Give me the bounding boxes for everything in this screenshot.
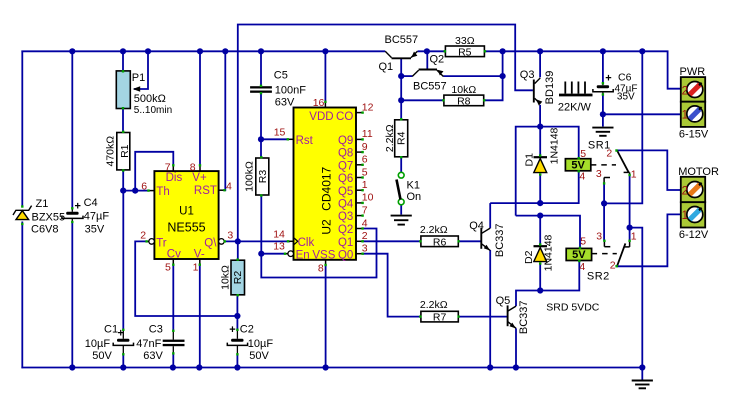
svg-text:6: 6 bbox=[141, 180, 147, 192]
resistor R6 2.2k bbox=[419, 236, 460, 247]
svg-text:BZX55: BZX55 bbox=[32, 212, 66, 224]
label Q3 bbox=[520, 69, 535, 81]
svg-text:SRD 5VDC: SRD 5VDC bbox=[546, 302, 600, 314]
wire D1 cathode to +5V node bbox=[539, 127, 541, 156]
label Q1 bbox=[379, 61, 394, 73]
wire R3 bottom to En junction bbox=[260, 195, 262, 254]
pin number 9 of U2 bbox=[362, 141, 368, 153]
name U2 (rotated) bbox=[320, 219, 334, 235]
value 2.2k of R7 bbox=[420, 299, 448, 311]
pin number 8 of U2 bbox=[318, 262, 324, 274]
value 47uF of C4 bbox=[84, 211, 110, 223]
junction dot Tr/R2/C2 bbox=[234, 313, 240, 319]
wire U1 pin 1 V- down to GND rail bbox=[199, 264, 201, 368]
svg-text:+: + bbox=[75, 201, 81, 213]
svg-text:R1: R1 bbox=[119, 144, 131, 158]
svg-text:35V: 35V bbox=[85, 224, 105, 236]
pin name Cv bbox=[167, 249, 181, 261]
pin number 2 of U2 bbox=[362, 230, 368, 242]
value 500k of P1 bbox=[134, 93, 166, 105]
label PWR bbox=[680, 66, 706, 78]
label P1 bbox=[132, 72, 145, 84]
pin 3 Q0 stub of U2 bbox=[356, 253, 364, 255]
pin 8 V+ stub bbox=[199, 164, 201, 171]
mechanical link dashes of SR2 bbox=[592, 253, 617, 255]
svg-text:SR2: SR2 bbox=[587, 271, 610, 283]
svg-text:100kΩ: 100kΩ bbox=[244, 161, 256, 192]
wire K1 bottom to ground bbox=[400, 205, 402, 215]
wire C2 branch from Tr node down bbox=[236, 316, 238, 330]
svg-text:R6: R6 bbox=[433, 236, 447, 248]
pin number 1 of U1 bbox=[193, 261, 199, 273]
svg-text:6: 6 bbox=[362, 154, 368, 166]
wire Rst net to U2 pin 15 bbox=[261, 138, 288, 140]
screw terminal 2 of PWR bbox=[687, 82, 703, 98]
pin number 3 of SR1 bbox=[596, 168, 602, 180]
contact pin 1 stub of SR2 bbox=[624, 240, 631, 247]
value BD139 of Q3 (rotated) bbox=[544, 71, 556, 105]
wire Q2 collector node horizontal bbox=[401, 75, 412, 77]
pin number 5 of SR2 bbox=[580, 235, 586, 247]
pin number 7 of U1 bbox=[165, 161, 171, 173]
label D2 (rotated) bbox=[523, 250, 535, 264]
pin 10 Q4 stub of U2 bbox=[356, 202, 364, 204]
junction dot +5V node at D1 cathode bbox=[537, 124, 543, 130]
wire P1 bottom to R1 top bbox=[122, 108, 124, 133]
value 35V of C6 bbox=[617, 92, 635, 103]
svg-text:11: 11 bbox=[362, 128, 373, 140]
transistor Q3 BD139 (NPN) bbox=[534, 78, 543, 106]
svg-text:Th: Th bbox=[156, 186, 169, 198]
wire Q3 collector to top rail bbox=[539, 51, 541, 77]
name U1 bbox=[179, 206, 194, 218]
svg-text:63V: 63V bbox=[275, 97, 295, 109]
svg-text:Z1: Z1 bbox=[36, 198, 49, 210]
svg-text:C5: C5 bbox=[274, 70, 288, 82]
pin name Tr bbox=[156, 237, 167, 249]
pin name Q8 bbox=[338, 148, 353, 160]
junction dot Q2 emitter / R5-R8 tie bbox=[500, 73, 506, 79]
plus sign of C1 bbox=[118, 328, 124, 340]
value 50V of C2 bbox=[249, 350, 269, 362]
pin number 8 of U1 bbox=[190, 161, 196, 173]
wire R7 right to Q5 base bbox=[458, 316, 508, 318]
svg-text:R7: R7 bbox=[433, 312, 447, 324]
svg-text:22K/W: 22K/W bbox=[558, 102, 592, 114]
plus sign of C6 bbox=[605, 73, 611, 85]
pin 13 En stub with inverting circle bbox=[284, 251, 294, 257]
name R5 bbox=[458, 46, 472, 58]
pin number 4 of U2 bbox=[362, 217, 368, 229]
junction dot node B at D2 cathode bbox=[537, 213, 543, 219]
svg-text:C1: C1 bbox=[104, 324, 118, 336]
svg-text:Q5: Q5 bbox=[338, 186, 353, 198]
contact pin 3 stub of SR1 bbox=[603, 178, 610, 185]
svg-text:Q9: Q9 bbox=[338, 135, 353, 147]
name R2 (rotated) bbox=[232, 271, 244, 285]
svg-text:1: 1 bbox=[362, 179, 368, 191]
label C4 bbox=[84, 197, 98, 209]
svg-text:10: 10 bbox=[362, 192, 374, 204]
wire node A horizontal: Q4 collector - D1 anode - SR1 coil pin 4 bbox=[490, 170, 579, 203]
svg-text:10µF: 10µF bbox=[248, 338, 274, 350]
svg-text:R8: R8 bbox=[457, 95, 471, 107]
svg-text:9: 9 bbox=[362, 141, 368, 153]
pin 12 CO stub of U2 bbox=[356, 111, 364, 113]
svg-text:K1: K1 bbox=[407, 180, 420, 192]
svg-text:Q1: Q1 bbox=[338, 237, 353, 249]
wire +V feed node down to SR2 contact pin 3 bbox=[603, 203, 605, 240]
wire C5 branch from top rail bbox=[260, 51, 262, 87]
value 6-15V of PWR bbox=[679, 129, 709, 141]
svg-text:2: 2 bbox=[362, 230, 368, 242]
pin number 2 of SR2 bbox=[610, 259, 616, 271]
wire P1 wiper to top rail bbox=[134, 51, 148, 89]
pin number 1 of MOTOR bbox=[682, 210, 688, 222]
wire GND bottom rail y=367.5 bbox=[21, 367, 642, 369]
ground symbol below C6 bbox=[592, 128, 613, 136]
pin name Dis bbox=[166, 172, 183, 184]
diode D2 1N4148 bbox=[534, 243, 548, 264]
pin 2 Tr stub with inverting circle bbox=[145, 239, 154, 245]
svg-text:Cv: Cv bbox=[167, 249, 181, 261]
svg-text:Tr: Tr bbox=[156, 237, 167, 249]
svg-text:R2: R2 bbox=[232, 271, 244, 285]
name R8 bbox=[457, 95, 471, 107]
pin number 4 of SR1 bbox=[579, 171, 585, 183]
value BZX55 bbox=[32, 212, 66, 224]
value BC337 of Q4 (rotated) bbox=[494, 223, 506, 257]
name R1 (rotated) bbox=[119, 144, 131, 158]
wire PWR terminal 1 to GND node at C6 bbox=[603, 113, 681, 115]
transistor Q5 BC337 (NPN) bbox=[508, 305, 516, 328]
svg-text:4: 4 bbox=[579, 171, 585, 183]
svg-text:1: 1 bbox=[631, 230, 637, 242]
wire U2 pin 8 VSS down to GND rail bbox=[325, 265, 327, 368]
svg-text:+: + bbox=[229, 324, 235, 336]
wire R8 left connection bbox=[401, 99, 444, 101]
svg-text:R5: R5 bbox=[458, 46, 472, 58]
pin name Q1 bbox=[338, 237, 353, 249]
value C6V8 bbox=[31, 224, 59, 236]
pin 7 Q3 stub of U2 bbox=[356, 214, 364, 216]
wire R6 right to Q4 base bbox=[458, 240, 482, 242]
label On of K1 bbox=[407, 191, 422, 203]
wire Rst junction to R3 top bbox=[260, 139, 262, 158]
wire C6 branch from top rail bbox=[602, 51, 604, 83]
value 10uF of C2 bbox=[248, 338, 274, 350]
wire C2 bottom to GND rail bbox=[236, 354, 238, 368]
svg-text:1: 1 bbox=[631, 168, 637, 180]
svg-text:2: 2 bbox=[682, 86, 688, 98]
ground symbol at bottom rail end bbox=[632, 368, 653, 389]
label SR1 bbox=[588, 140, 611, 152]
contact pin 3 stub of SR2 bbox=[603, 240, 610, 247]
svg-text:D2: D2 bbox=[523, 250, 535, 264]
pin 8 VSS stub bbox=[324, 260, 326, 266]
transistor Q2 BC557 (PNP) bbox=[412, 70, 443, 77]
svg-text:3: 3 bbox=[227, 230, 233, 242]
svg-text:Q2: Q2 bbox=[338, 224, 353, 236]
wire Q2 emitter to R5/R8 vertical bbox=[443, 75, 502, 77]
relay SR2 coil 5V bbox=[566, 247, 591, 262]
op-amp/timer U1 NE555 body bbox=[154, 171, 218, 259]
pin name En bbox=[296, 249, 310, 261]
wire +5V node horizontal: Q3 emitter - D1 - SR1 coil pin 5 bbox=[516, 127, 579, 216]
svg-text:6-12V: 6-12V bbox=[679, 229, 709, 241]
connector PWR terminal block bbox=[681, 77, 705, 127]
label SRD 5VDC bbox=[546, 302, 600, 314]
wire C4 bottom to GND rail bbox=[71, 222, 73, 368]
svg-text:En: En bbox=[296, 249, 310, 261]
pin number 3 of U1 bbox=[227, 230, 233, 242]
pin number 15 of U2 bbox=[274, 126, 286, 138]
pin number 3 of SR2 bbox=[596, 230, 602, 242]
name R6 bbox=[433, 236, 447, 248]
svg-text:U1: U1 bbox=[179, 206, 194, 218]
name R4 (rotated) bbox=[396, 131, 408, 145]
svg-text:2.2kΩ: 2.2kΩ bbox=[384, 124, 396, 152]
pin name VDD bbox=[309, 111, 333, 123]
value 47nF of C3 bbox=[136, 338, 161, 350]
svg-text:+: + bbox=[605, 73, 611, 85]
capacitor C6 47uF 35V (polarized) bbox=[593, 82, 613, 96]
value 5V of SR1 coil bbox=[571, 159, 585, 171]
pin number 7 of U2 bbox=[362, 204, 368, 216]
value 50V of C1 bbox=[92, 350, 112, 362]
svg-text:5: 5 bbox=[580, 235, 586, 247]
wire Q2 base to top rail bbox=[426, 51, 428, 68]
wire U1 pin 4 RST to top rail bbox=[224, 51, 225, 190]
svg-text:2: 2 bbox=[682, 185, 688, 197]
label BC557 of Q1 bbox=[385, 34, 419, 46]
pin name V+ bbox=[192, 172, 207, 184]
svg-text:D1: D1 bbox=[524, 153, 536, 167]
value 10k of R8 bbox=[451, 84, 476, 96]
pin 5 Cv stub bbox=[172, 259, 174, 266]
value 35V of C4 bbox=[85, 224, 105, 236]
pin name RST bbox=[194, 185, 217, 197]
capacitor C4 47uF 35V (polarized) bbox=[62, 207, 83, 223]
pin 7 Dis stub bbox=[172, 164, 174, 171]
label BC557 of Q2 bbox=[413, 81, 447, 93]
svg-text:NE555: NE555 bbox=[167, 221, 205, 235]
wire SR2 contact pin 2 to MOTOR terminal 1 bbox=[617, 214, 681, 266]
pin 6 Th stub bbox=[147, 189, 154, 191]
wire U1 pin 8 V+ to top rail bbox=[199, 51, 201, 166]
pin 4 RST stub bbox=[219, 189, 226, 191]
pin number 11 of U2 bbox=[362, 128, 373, 140]
value NE555 bbox=[167, 221, 205, 235]
wire R2 bottom to Tr loop node bbox=[236, 295, 238, 317]
plus sign of C4 bbox=[75, 201, 81, 213]
diode D1 1N4148 bbox=[534, 154, 548, 175]
wire C4 branch from top rail bbox=[71, 51, 73, 208]
wire R1 bottom to Th junction bbox=[122, 170, 124, 191]
svg-text:4: 4 bbox=[226, 180, 232, 192]
svg-text:5V: 5V bbox=[571, 159, 585, 171]
value 2.2k of R4 (rotated) bbox=[384, 124, 396, 152]
pin name Clk bbox=[298, 237, 315, 249]
wire U2 pin 3 Q0 output to R7 bbox=[362, 254, 421, 317]
svg-text:C6V8: C6V8 bbox=[31, 224, 59, 236]
pin name V- bbox=[194, 249, 205, 261]
svg-text:100nF: 100nF bbox=[275, 85, 306, 97]
label Q5 bbox=[496, 295, 511, 307]
wire Q4 emitter down to GND rail bbox=[489, 250, 491, 368]
wire R4 top connection bbox=[400, 100, 402, 120]
svg-text:CD4017: CD4017 bbox=[320, 166, 334, 210]
wire C1 branch from Th junction down bbox=[122, 191, 124, 331]
pin 1 V- stub bbox=[199, 259, 201, 266]
pin number 4 of SR2 bbox=[579, 261, 585, 273]
svg-text:VDD: VDD bbox=[309, 111, 333, 123]
pin number 16 of U2 bbox=[313, 97, 325, 109]
pin name Q0 bbox=[338, 249, 353, 261]
pin name CO bbox=[336, 111, 353, 123]
value 5V of SR2 coil bbox=[572, 249, 586, 261]
pin name Q4 bbox=[338, 199, 354, 211]
svg-text:BC557: BC557 bbox=[413, 81, 447, 93]
svg-text:Q1: Q1 bbox=[379, 61, 394, 73]
wire +V feed from top rail to relay throw node bbox=[604, 51, 642, 203]
wire Dis loop: Th junction up and over to U1 pin 7 bbox=[135, 152, 173, 191]
label C5 bbox=[274, 70, 288, 82]
wire U1 pin 5 Cv down to C3 bbox=[172, 264, 174, 331]
wire C6 bottom to PWR-1/GND node bbox=[602, 94, 604, 114]
pin number 6 of U2 bbox=[362, 154, 368, 166]
junction dot Q\/Clk/R2 bbox=[235, 238, 241, 244]
pin name Q3 bbox=[338, 211, 353, 223]
value 5..10min of P1 bbox=[134, 105, 172, 116]
switch K1 On bbox=[397, 172, 405, 205]
svg-text:3: 3 bbox=[596, 230, 602, 242]
svg-text:Q3: Q3 bbox=[520, 69, 535, 81]
svg-text:Q3: Q3 bbox=[338, 211, 353, 223]
svg-text:47nF: 47nF bbox=[136, 338, 161, 350]
pin number 2 of SR1 bbox=[606, 147, 612, 159]
pin number 5 of SR1 bbox=[580, 148, 586, 160]
value 2.2k of R6 bbox=[420, 224, 448, 236]
resistor R2 10k (highlighted) bbox=[231, 258, 245, 296]
connector MOTOR terminal block bbox=[681, 177, 705, 228]
pin number 1 of U2 bbox=[362, 179, 368, 191]
pin number 5 of U1 bbox=[165, 261, 171, 273]
screw terminal 1 of PWR bbox=[687, 106, 703, 122]
svg-text:Dis: Dis bbox=[166, 172, 183, 184]
name R7 bbox=[433, 312, 447, 324]
svg-text:33Ω: 33Ω bbox=[455, 35, 475, 47]
value 1N4148 of D2 (rotated) bbox=[543, 234, 555, 271]
value 100k of R3 (rotated) bbox=[244, 161, 256, 192]
value 33ohm of R5 bbox=[455, 35, 475, 47]
svg-text:2.2kΩ: 2.2kΩ bbox=[420, 224, 448, 236]
label Q4 bbox=[469, 220, 484, 232]
wire U1 pin 2 Tr loop down to R2 bottom node bbox=[135, 241, 237, 316]
svg-text:470kΩ: 470kΩ bbox=[105, 136, 117, 167]
svg-text:C6: C6 bbox=[618, 72, 632, 84]
pin number 5 of U2 bbox=[362, 166, 368, 178]
label C2 bbox=[240, 324, 254, 336]
contact lever of SR2 (pin 2 to pin 1) bbox=[615, 243, 625, 267]
wire U2 pin 2 Q1 output to R6 bbox=[362, 240, 421, 242]
svg-text:C2: C2 bbox=[240, 324, 254, 336]
wire D2 cathode to node B bbox=[539, 216, 541, 245]
pin 9 Q8 stub of U2 bbox=[356, 151, 364, 153]
svg-text:U2: U2 bbox=[320, 219, 334, 235]
pin 11 Q9 stub of U2 bbox=[356, 138, 364, 140]
pin 2 Q1 stub of U2 bbox=[356, 240, 364, 242]
svg-text:BD139: BD139 bbox=[544, 71, 556, 105]
wire Th net horizontal to U1 pin 6 bbox=[123, 190, 149, 192]
svg-text:1N4148: 1N4148 bbox=[543, 234, 555, 271]
wire Q5 emitter down to GND rail bbox=[515, 328, 517, 367]
svg-text:500kΩ: 500kΩ bbox=[134, 93, 166, 105]
svg-text:Q4: Q4 bbox=[469, 220, 484, 232]
resistor R5 33ohm bbox=[444, 46, 487, 57]
svg-text:10µF: 10µF bbox=[85, 338, 111, 350]
pin 14 Clk stub with clock chevron bbox=[287, 238, 298, 246]
screw terminal 1 of MOTOR bbox=[687, 207, 703, 223]
pin number 13 of U2 bbox=[273, 241, 285, 253]
capacitor C5 100nF 63V bbox=[250, 85, 272, 95]
wire relay commons node to SR2 pin 1 bbox=[629, 228, 631, 241]
wire SR1 contact pin 2 to MOTOR terminal 2 bbox=[617, 150, 681, 190]
mechanical link dashes of SR1 bbox=[591, 164, 616, 166]
junction dots on GND bottom rail bbox=[69, 364, 645, 370]
value 6-12V of MOTOR bbox=[679, 229, 709, 241]
wire R4 bottom to switch K1 bbox=[400, 157, 402, 173]
svg-text:Q6: Q6 bbox=[338, 173, 353, 185]
pin number 1 of PWR bbox=[682, 110, 688, 122]
value 63V of C3 bbox=[143, 350, 163, 362]
wire D1 anode to node A bbox=[539, 174, 541, 203]
junction dots on +V rail bbox=[69, 48, 645, 54]
heatsink symbol 22K/W bbox=[559, 82, 593, 96]
pin number 6 of U1 bbox=[141, 180, 147, 192]
contact pin 1 stub of SR1 bbox=[624, 172, 631, 176]
pin name Q9 bbox=[338, 135, 353, 147]
svg-text:4: 4 bbox=[362, 217, 368, 229]
pin name Q6 bbox=[338, 173, 353, 185]
pin name Q5 bbox=[338, 186, 353, 198]
label K1 bbox=[407, 180, 420, 192]
wire +V rail segment R5 right to PWR terminal 2 bbox=[484, 51, 681, 88]
pin name Q2 bbox=[338, 224, 353, 236]
svg-text:10kΩ: 10kΩ bbox=[220, 265, 232, 290]
label Q2 bbox=[430, 54, 445, 66]
svg-text:Q5: Q5 bbox=[496, 295, 511, 307]
wire clock top rail from Q\ node to Q3 base bbox=[238, 25, 533, 242]
svg-text:14: 14 bbox=[273, 228, 285, 240]
pin 3 Q\ stub with inverting circle bbox=[219, 239, 226, 245]
svg-text:50V: 50V bbox=[249, 350, 269, 362]
pin 5 Q6 stub of U2 bbox=[356, 176, 364, 178]
pin 6 Q7 stub of U2 bbox=[356, 164, 364, 166]
svg-text:13: 13 bbox=[273, 241, 285, 253]
value 10k of R2 (rotated) bbox=[220, 265, 232, 290]
svg-text:5V: 5V bbox=[572, 249, 586, 261]
junction dot En/R3 bbox=[258, 251, 264, 257]
pin number 2 of PWR bbox=[682, 86, 688, 98]
svg-text:VSS: VSS bbox=[312, 249, 335, 261]
svg-text:2: 2 bbox=[610, 259, 616, 271]
pin name Rst bbox=[296, 135, 314, 147]
svg-text:4: 4 bbox=[579, 261, 585, 273]
value 22K/W of heatsink bbox=[558, 102, 592, 114]
svg-text:12: 12 bbox=[362, 101, 374, 113]
junction dot Th/R1/C1 bbox=[120, 188, 138, 194]
